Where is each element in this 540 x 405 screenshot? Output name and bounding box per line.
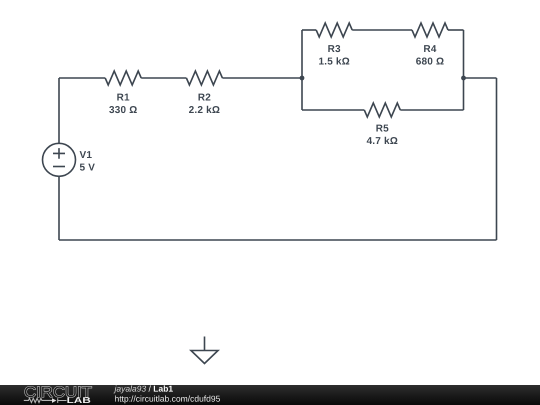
resistor R3	[316, 23, 352, 37]
footer credit separator	[149, 385, 151, 391]
label R3 name	[328, 45, 340, 52]
wire parallel-box left vertical	[301, 30, 303, 110]
resistor R5	[364, 103, 400, 117]
label R1 value 330 ohm	[109, 106, 137, 113]
logo resistor squiggle	[24, 398, 52, 402]
label R1 name	[117, 94, 129, 101]
node B junction dot	[461, 76, 466, 81]
wire V1 bottom to bottom rail	[58, 176, 60, 240]
wire between R3 and R4	[352, 29, 412, 31]
logo diode	[52, 398, 56, 403]
V1 minus sign	[53, 166, 65, 168]
wire V1 top stub	[58, 78, 60, 143]
logo wordmark LAB	[67, 397, 90, 403]
ground	[191, 337, 218, 364]
resistor R4	[412, 23, 448, 37]
wire box top-left segment	[302, 29, 316, 31]
wire from R2 to node A	[222, 77, 302, 79]
wire box top-right segment	[448, 29, 464, 31]
label R2 name	[199, 94, 211, 101]
CircuitLab logo wordmark CIRCUIT	[25, 387, 92, 398]
V1 plus sign	[53, 148, 65, 159]
node A junction dot	[300, 76, 305, 81]
label R5 value 4.7 kohm	[367, 137, 398, 144]
wire bottom rail	[59, 239, 497, 241]
footer bar	[0, 385, 540, 405]
resistor R1	[105, 71, 141, 85]
label R2 value 2.2 kohm	[189, 106, 220, 113]
wire parallel-box right vertical	[463, 30, 465, 110]
wire between R1 and R2	[141, 77, 186, 79]
label V1 value 5 V	[80, 164, 95, 171]
footer credit author jayala93	[114, 385, 147, 393]
footer credit title Lab1	[154, 385, 173, 391]
wire right rail vertical	[496, 78, 498, 240]
resistor R2	[186, 71, 222, 85]
wire top-left horizontal from V1 to R1	[59, 77, 105, 79]
footer url	[115, 395, 220, 403]
label R4 value 680 ohm	[416, 58, 444, 65]
wire box bottom-left segment	[302, 109, 364, 111]
label V1 name	[80, 151, 92, 158]
wire box bottom-right segment	[400, 109, 463, 111]
label R5 name	[376, 125, 388, 132]
label R3 value 1.5 kohm	[319, 57, 349, 64]
voltage source V1 circle	[43, 143, 76, 176]
wire from node B to right rail	[464, 77, 497, 79]
label R4 name	[424, 45, 436, 52]
